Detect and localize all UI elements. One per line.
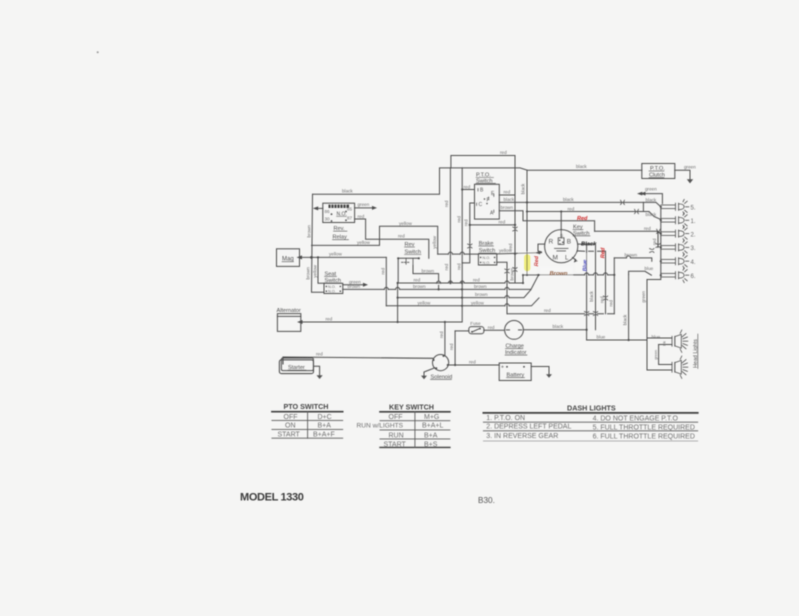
svg-text:brown: brown: [413, 284, 426, 289]
arrowhead: seat green: [363, 283, 368, 287]
component: Mag box: [277, 249, 300, 267]
switch S5: Key Switch circle: [545, 230, 578, 263]
wire: brake switch row (yellow) to key switch arrow: [438, 253, 542, 255]
svg-text:PTO SWITCH: PTO SWITCH: [284, 402, 329, 411]
svg-text:brown: brown: [305, 267, 310, 280]
svg-text:red: red: [464, 184, 471, 189]
svg-text:blue: blue: [652, 335, 661, 340]
wire: battery ground: [531, 367, 549, 375]
lamp 4: dash lamp: [661, 254, 689, 269]
hop: rev brown over red row: [437, 281, 441, 283]
annotation: white-out patch blue: [576, 253, 589, 272]
wire: green from relay pin 85 with arrow: [355, 207, 374, 209]
svg-text:red: red: [414, 277, 421, 282]
svg-text:brown: brown: [509, 268, 514, 281]
wire: vertical from mag row down right of seat switch: [385, 257, 387, 305]
svg-text:B+A: B+A: [424, 432, 438, 439]
svg-text:2.: 2.: [691, 232, 696, 238]
svg-text:RUN: RUN: [389, 432, 404, 439]
svg-text:OFF: OFF: [389, 414, 403, 421]
wire: green stub with arrow above lamp 5: [641, 194, 662, 204]
wire: v586 from black row down to blue row: [586, 244, 588, 340]
wire: brake lower-left branch to v462: [462, 254, 470, 263]
svg-text:C: C: [479, 202, 483, 208]
svg-text:black: black: [646, 198, 657, 203]
wire: lamp bus bottom elbow to headlight green drop: [647, 275, 661, 338]
component: Charge Indicator: [505, 321, 524, 340]
svg-text:red: red: [456, 216, 461, 223]
svg-text:brown: brown: [475, 292, 488, 297]
junction: mag row at left bus: [310, 256, 319, 259]
wire: black vertical from top run down through yellow mark to brown bus: [526, 170, 528, 274]
svg-text:3.: 3.: [691, 246, 696, 252]
wire: green from seat switch with arrow: [343, 284, 365, 286]
svg-text:red: red: [644, 226, 651, 231]
wire: brake switch lower out down v507: [497, 262, 507, 314]
svg-text:red: red: [652, 238, 657, 245]
svg-text:N.O.: N.O.: [328, 285, 336, 289]
connector: inline on v515 lower: [513, 268, 517, 272]
node: dash lamp bus: [660, 207, 662, 275]
svg-text:red: red: [326, 316, 333, 321]
ground: solenoid: [421, 376, 427, 380]
lamp 1: dash lamp: [661, 213, 689, 228]
svg-text:Brown: Brown: [550, 271, 568, 277]
wire: red short row above brake switch: [470, 224, 515, 226]
component: Starter (with shadow box): [281, 358, 313, 371]
svg-text:black: black: [576, 164, 587, 169]
junction: solenoid drop corner: [444, 321, 446, 323]
svg-text:yellow: yellow: [312, 264, 317, 277]
relay K1: Rev. Relay box: [323, 203, 355, 222]
component: Head Lights assembly: [647, 338, 672, 370]
connector: inline pair on black row: [621, 200, 625, 204]
svg-text:red: red: [444, 200, 449, 207]
wire: fuse drop vertical: [454, 331, 456, 365]
table: KEY SWITCH divider: [414, 412, 416, 448]
junction: rev brown at brown row: [438, 288, 440, 290]
wire: vertical v450 from red loop down to red row: [449, 168, 451, 283]
svg-text:yellow: yellow: [418, 300, 431, 305]
connector: inline on lamp2 row: [657, 229, 661, 233]
svg-text:red: red: [600, 296, 605, 303]
svg-text:30: 30: [325, 217, 331, 222]
svg-text:red: red: [358, 214, 365, 219]
hop: brown bus over verticals: [585, 273, 608, 275]
arrowhead: relay green: [372, 206, 377, 210]
wire: starter ground: [314, 366, 320, 375]
wire: relay coil to left bus with arrow: [318, 207, 323, 209]
svg-text:red: red: [316, 351, 323, 356]
wire: black row from P.T.O. switch to lamp 5: [499, 202, 661, 206]
wire: black top run from relay bus to P.T.O. clutch: [313, 168, 642, 194]
wire: red from relay pin 87 down to rev switch row: [355, 219, 429, 258]
wire: jog to lamp 1: [643, 212, 660, 220]
svg-text:Fuse: Fuse: [470, 321, 481, 326]
svg-text:B: B: [567, 239, 571, 246]
svg-text:yellow: yellow: [499, 248, 512, 253]
svg-text:red: red: [464, 219, 469, 226]
key switch center contacts: [555, 230, 569, 251]
wire: fuse left lead: [455, 330, 469, 332]
wire: red row from v507 to v614: [507, 313, 614, 315]
head light bulb upper: [672, 330, 688, 352]
svg-text:black: black: [623, 314, 628, 325]
wire: brown row from seat switch to junction cluster: [343, 275, 539, 289]
svg-text:brown: brown: [501, 205, 514, 210]
svg-text:red: red: [544, 308, 551, 313]
hop: red row over v507: [505, 281, 509, 283]
svg-text:yellow: yellow: [357, 240, 370, 245]
junction: v515 nodes: [469, 224, 517, 255]
svg-text:red: red: [473, 277, 480, 282]
lamp 3: dash lamp: [661, 240, 689, 255]
wire: red row to lamp 1: [527, 202, 643, 211]
svg-text:black: black: [646, 212, 657, 217]
svg-text:B30.: B30.: [478, 496, 495, 505]
wire: key switch top feed: [560, 212, 562, 230]
svg-text:2. DEPRESS LEFT PEDAL: 2. DEPRESS LEFT PEDAL: [486, 423, 571, 430]
svg-text:red: red: [444, 263, 449, 270]
svg-text:brown: brown: [307, 225, 312, 238]
svg-text:4. DO NOT ENGAGE P.T.O: 4. DO NOT ENGAGE P.T.O: [593, 416, 679, 423]
lamp 6: dash lamp: [661, 268, 689, 283]
component: Fuse: [469, 327, 484, 334]
hop: brake row over v450 v462: [448, 252, 464, 254]
wire: v614 from lamp brown row to red row end: [613, 258, 615, 314]
wire: brown bus to v614: [523, 274, 614, 276]
wire: brown from rev switch down to brown row: [413, 265, 439, 289]
junction: v397 nodes: [397, 282, 399, 323]
wire: fuse to charge indicator (red): [484, 329, 505, 331]
wire: v628 down to headlight row: [628, 274, 630, 340]
wire: vertical to seat switch top contact: [318, 257, 324, 283]
key switch ground stub arrow: [573, 258, 576, 261]
svg-text:MODEL 1330: MODEL 1330: [240, 492, 304, 504]
svg-text:KEY SWITCH: KEY SWITCH: [389, 402, 434, 411]
switch S1: P.T.O. Switch box: [475, 184, 500, 219]
wire: red row to lamp 2: [595, 231, 661, 233]
svg-text:5.: 5.: [691, 206, 696, 212]
svg-text:blue: blue: [645, 266, 654, 271]
wire: green from clutch to ground: [675, 170, 690, 179]
svg-text:Black: Black: [581, 241, 597, 247]
svg-text:red: red: [381, 268, 386, 275]
svg-text:yellow: yellow: [432, 235, 437, 248]
svg-text:OFF: OFF: [284, 414, 298, 421]
wire: red feed into P.T.O. switch pin B from v462: [462, 189, 474, 191]
rev switch contact dashes: [402, 258, 414, 265]
svg-text:red: red: [499, 219, 506, 224]
svg-text:N.O.: N.O.: [483, 256, 491, 260]
wire: blue row to headlights: [587, 339, 647, 341]
connector: inline on v507: [505, 269, 509, 273]
hop: yellow row over v507: [505, 304, 509, 306]
svg-text:D+C: D+C: [318, 414, 332, 421]
arrowhead: alternator out: [297, 320, 303, 324]
wire: solenoid to battery (red): [449, 364, 500, 366]
wire: Mag to left bus with arrow: [301, 256, 386, 258]
wire: key switch left R to brake arrow: [538, 244, 545, 252]
junction: v462 nodes: [461, 282, 463, 307]
junction: brown bus taps: [522, 274, 616, 284]
junction: v527 on black row: [526, 201, 528, 212]
junction: v450 at red row: [449, 282, 451, 284]
svg-text:green: green: [654, 350, 658, 360]
svg-text:RUN w/LIGHTS: RUN w/LIGHTS: [357, 422, 404, 429]
svg-text:85: 85: [347, 207, 353, 212]
svg-text:START: START: [278, 432, 301, 439]
wire: charge indicator to v586 (black): [523, 329, 586, 331]
svg-text:B+A: B+A: [318, 423, 332, 430]
svg-text:red: red: [488, 325, 495, 330]
lamp 5: dash lamp P.T.O. ON: [661, 199, 689, 214]
junction: key top on red row: [560, 210, 562, 212]
relay K1 pin dots: [331, 211, 347, 222]
component: Solenoid: [433, 355, 449, 371]
svg-text:1.: 1.: [691, 219, 696, 225]
connector: inline pair on lamp1 row: [635, 209, 639, 213]
svg-text:brown: brown: [348, 284, 361, 289]
svg-text:black: black: [563, 197, 574, 202]
wire: left bus vertical from top black run down to seat switch loop: [312, 194, 325, 292]
svg-text:red: red: [608, 300, 613, 307]
svg-text:blk: blk: [663, 341, 667, 346]
svg-text:ON: ON: [285, 423, 296, 430]
wire: red jumper loop above P.T.O. switch: [451, 156, 515, 196]
wire: vertical v397 red row to alternator row: [397, 283, 399, 322]
ground: P.T.O. clutch: [687, 179, 693, 183]
component: P.T.O. Clutch: [642, 164, 675, 179]
svg-text:black: black: [553, 324, 564, 329]
svg-text:red: red: [504, 190, 511, 195]
svg-text:M+G: M+G: [424, 414, 439, 421]
svg-text:yellow: yellow: [471, 300, 484, 305]
svg-text:red: red: [500, 150, 507, 155]
svg-text:yellow: yellow: [399, 221, 412, 226]
svg-text:86: 86: [325, 209, 331, 214]
svg-text:F: F: [487, 198, 490, 204]
svg-text:N.O.: N.O.: [328, 289, 336, 293]
connector: inline on vC: [468, 244, 472, 248]
svg-text:brown: brown: [422, 268, 435, 273]
hop: brown row2 over v507: [505, 296, 509, 298]
wire: brown bus left drop to red row: [522, 275, 524, 283]
svg-text:red: red: [568, 206, 575, 211]
wire: lamp3 drop from lamp2 row: [657, 231, 659, 247]
svg-text:+: +: [501, 365, 504, 371]
svg-text:blue: blue: [597, 335, 606, 340]
wire: vertical v462 from black row down to solenoid feed row: [461, 168, 463, 322]
svg-text:4.: 4.: [691, 260, 696, 266]
svg-text:1. P.T.O. ON: 1. P.T.O. ON: [486, 415, 525, 422]
ground: starter: [317, 375, 323, 379]
svg-text:green: green: [684, 164, 696, 169]
arrowhead: mag wire: [297, 255, 303, 259]
wire: drop to solenoid top: [444, 322, 446, 355]
wire: brown row 2: [398, 290, 531, 298]
wire: vertical red down from pin E node to brake row: [514, 195, 516, 283]
svg-text:green: green: [645, 187, 657, 192]
wire: yellow loop from left bus over rev switch: [312, 226, 438, 254]
svg-text:black: black: [520, 183, 525, 194]
svg-text:brown: brown: [625, 252, 638, 257]
ground: battery: [546, 374, 552, 378]
wire: alternator red row to solenoid drop: [302, 321, 463, 323]
rev switch contact row: [398, 257, 419, 259]
svg-text:6.: 6.: [691, 274, 696, 280]
hop: red row over v450 v462: [448, 281, 464, 283]
svg-text:black: black: [589, 290, 594, 301]
P.T.O. switch pin ticks: [477, 189, 494, 213]
svg-text:green: green: [641, 291, 646, 303]
svg-text:B+A+F: B+A+F: [313, 432, 335, 439]
head light bulb lower: [672, 356, 688, 378]
hop: brown row over v386: [384, 287, 509, 289]
wire: key switch L right to v605: [578, 250, 606, 252]
wire: yellow row: [386, 298, 539, 306]
junction: v462 at pin B branch: [461, 188, 463, 190]
annotation: white-out patch left: [518, 252, 536, 275]
svg-text:Red: Red: [600, 247, 606, 258]
relay K1 coil bar: [329, 205, 350, 208]
junction: fuse drop at battery row: [454, 364, 456, 366]
table: PTO SWITCH divider: [307, 412, 309, 439]
wire: v605 from key L row down to red row: [605, 251, 607, 313]
wire: v595 from black row down to charge row: [595, 244, 597, 330]
svg-text:red: red: [439, 331, 444, 338]
arrowhead: relay left: [313, 206, 318, 210]
svg-text:green: green: [358, 202, 370, 207]
svg-text:red: red: [469, 360, 476, 365]
wire: red row from rev switch leg to cluster: [398, 282, 523, 284]
svg-text:87: 87: [347, 216, 353, 221]
connector: inline on lamp3 drop: [656, 244, 660, 248]
switch S2: Seat Switch box: [324, 283, 343, 293]
junction: v586 top: [586, 243, 588, 331]
wire: key switch B right (Black): [578, 243, 596, 245]
wire: vertical from P.T.O. switch pin C to brake switch: [470, 203, 475, 254]
connector: inline on v605: [603, 296, 607, 300]
svg-text:Red: Red: [534, 255, 540, 266]
wire: red out of P.T.O. switch pin E: [499, 194, 515, 196]
annotation: white-out patch center: [540, 267, 573, 278]
svg-text:red: red: [398, 234, 405, 239]
svg-text:black: black: [504, 197, 515, 202]
svg-text:red: red: [449, 343, 454, 350]
wire: blue row to lamp 6: [629, 271, 652, 275]
svg-text:6. FULL THROTTLE REQUIRED: 6. FULL THROTTLE REQUIRED: [593, 434, 695, 441]
svg-text:Red: Red: [577, 216, 588, 222]
svg-text:R: R: [549, 239, 554, 246]
connector: inline on v515 upper: [513, 227, 517, 231]
svg-text:Blue: Blue: [582, 260, 588, 272]
svg-text:B+A+L: B+A+L: [422, 422, 444, 429]
svg-text:red: red: [456, 263, 461, 270]
svg-text:N.O.: N.O.: [483, 261, 491, 265]
wire: brown row to lamp 4: [614, 258, 652, 261]
svg-text:Alternator: Alternator: [277, 308, 301, 314]
component: Battery: [499, 363, 531, 381]
wire: solenoid ground: [424, 368, 435, 376]
arrowhead: into key switch wire pointing left: [536, 251, 541, 254]
svg-text:brown: brown: [474, 284, 487, 289]
junction: v628 at blue row: [628, 339, 630, 341]
svg-text:black: black: [342, 189, 353, 194]
wire: rev switch left leg down to red row: [397, 258, 399, 283]
connector: inline on lamp4 drop: [650, 249, 654, 253]
annotation: yellow highlighter mark: [524, 254, 530, 271]
svg-text:3. IN REVERSE GEAR: 3. IN REVERSE GEAR: [486, 433, 558, 440]
connector: inline on v595: [593, 312, 597, 316]
svg-text:M: M: [553, 255, 558, 262]
svg-text:DASH LIGHTS: DASH LIGHTS: [567, 404, 616, 413]
stray scan speck: [97, 51, 99, 53]
lamp 2: dash lamp: [661, 226, 689, 241]
connector: inline on v586: [584, 312, 588, 316]
svg-text:yellow: yellow: [329, 252, 342, 257]
wire: red from starter to solenoid: [283, 357, 433, 364]
wire: brown out of P.T.O. switch jog down: [499, 211, 594, 232]
